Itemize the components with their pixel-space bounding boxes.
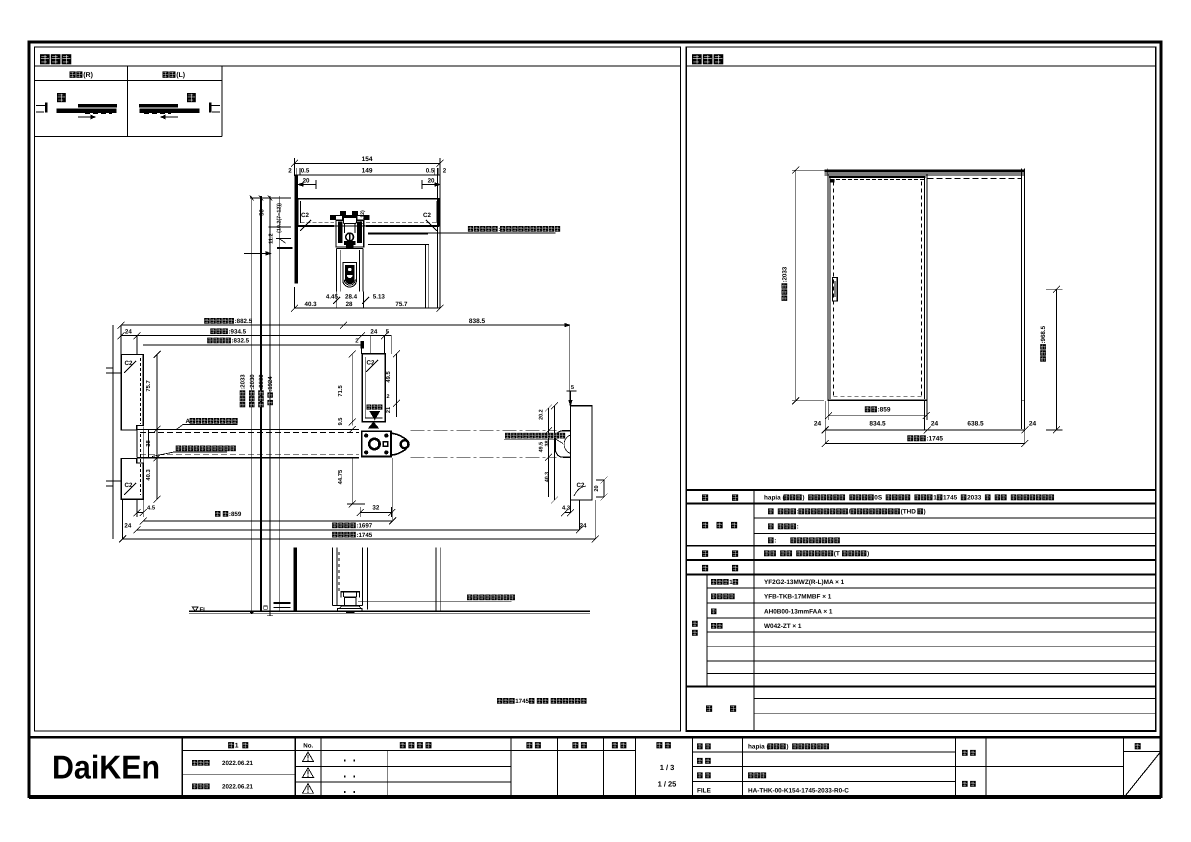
svg-text:40.3: 40.3: [545, 472, 551, 483]
svg-text:1 / 3: 1 / 3: [660, 763, 675, 772]
center post mohair text: [367, 405, 372, 410]
svg-text:1: 1: [235, 743, 239, 750]
center post (plan section) box: [362, 354, 385, 422]
elevation top rail: [824, 170, 1024, 172]
left-sliding diagram: direction mark: [187, 93, 196, 102]
svg-text:20: 20: [303, 178, 310, 185]
svg-text:28: 28: [346, 301, 353, 308]
right-sliding diagram: direction mark: [57, 93, 66, 102]
svg-text:C2: C2: [423, 212, 431, 219]
right-sliding diagram: arrow: [78, 116, 95, 118]
svg-text:24: 24: [1029, 421, 1037, 428]
svg-text:1: 1: [933, 495, 937, 502]
recessed pull outer shell: [343, 263, 357, 287]
FL level mark: [192, 607, 198, 612]
left panel header line: [35, 65, 681, 67]
title block top heavy line: [29, 736, 1161, 738]
floor detail: right jamb pair: [435, 548, 437, 611]
plan dim row1 line 882.5 / 838.5: [121, 324, 570, 326]
svg-text::859: :859: [229, 511, 242, 518]
svg-text:75.7: 75.7: [395, 301, 408, 308]
callout 吊戸用ガイドピン: [467, 595, 472, 601]
svg-text:49.5: 49.5: [385, 371, 392, 383]
head rail bottom flange right (bold): [366, 225, 439, 227]
svg-text:C2: C2: [125, 360, 133, 367]
plan dims extension verticals top: [120, 325, 122, 354]
svg-text::2030: :2030: [249, 374, 256, 390]
spec table outer heavy border: [686, 490, 1156, 731]
left jamb dashed inner lower: [140, 434, 142, 495]
svg-text::2033: :2033: [240, 374, 247, 390]
plan dim row2 line 内法幅934.5: [121, 335, 391, 337]
svg-text:HA-THK-00-K154-1745-2033-R0-C: HA-THK-00-K154-1745-2033-R0-C: [748, 788, 849, 795]
svg-text:32: 32: [372, 504, 379, 511]
bottom dim row 扉幅:859: [215, 511, 220, 517]
head detail left tie line at y198: [250, 197, 291, 199]
right jamb sliding-cap outline (rounded left): [556, 431, 571, 458]
svg-text:154: 154: [362, 156, 373, 163]
left-sliding diagram: arrow: [161, 116, 178, 118]
svg-text:28.4: 28.4: [345, 294, 358, 301]
page diagonal: [1124, 753, 1160, 798]
head section dim 20 right: [422, 184, 440, 186]
elevation rail underside line: [824, 174, 1024, 176]
head detail left dim 50: [259, 208, 266, 215]
svg-text:20: 20: [594, 485, 600, 491]
svg-text:hapia (: hapia (: [764, 495, 785, 502]
right panel header line: [686, 65, 1156, 67]
head detail bottom dim line: [295, 307, 441, 309]
svg-text:0.5: 0.5: [426, 168, 435, 175]
hanger roller: center white carriage: [343, 217, 356, 223]
svg-text:1: 1: [729, 579, 733, 586]
head detail bottom dim row 1: [331, 296, 333, 301]
scale column 縮尺: [656, 742, 662, 748]
spec 品番 vertical label: [692, 621, 698, 627]
svg-text:YF2G2-13MWZ(R-L)MA × 1: YF2G2-13MWZ(R-L)MA × 1: [764, 579, 845, 586]
svg-text:24: 24: [931, 421, 939, 428]
svg-text:11.2: 11.2: [269, 233, 275, 244]
svg-text:(R): (R): [83, 71, 93, 79]
bottom dims extension verticals: [122, 499, 124, 539]
svg-text::2000: :2000: [258, 374, 265, 390]
svg-text:(L): (L): [176, 71, 185, 79]
center post mohair brush mark (filled triangle): [370, 412, 380, 420]
svg-text:DaiKEn: DaiKEn: [52, 749, 160, 786]
head rail outer box: [298, 199, 439, 226]
svg-text:5.13: 5.13: [373, 294, 386, 301]
elevation dim extension verticals: [824, 401, 826, 444]
svg-text:AH0B00-13mmFAA × 1: AH0B00-13mmFAA × 1: [764, 609, 833, 616]
head detail left tie line arrow y253: [244, 252, 271, 254]
svg-text::2033: :2033: [782, 266, 789, 282]
center post anchor mark below box: [369, 422, 379, 428]
svg-text::: :: [774, 538, 776, 545]
title block vertical dividers: [181, 737, 183, 798]
svg-text:24: 24: [124, 523, 131, 530]
svg-text:1 / 25: 1 / 25: [658, 780, 677, 789]
height line 3: [269, 196, 271, 610]
head detail bottom extension verticals: [336, 292, 338, 309]
floor detail: guide pin base plate: [337, 609, 362, 612]
right jamb top dim 5 arrow: [570, 391, 572, 406]
svg-text:2: 2: [387, 394, 390, 400]
hanger roller: side wheels (filled): [338, 222, 343, 244]
head section dim line 2/0.5/149/0.5/2: [295, 174, 441, 176]
center post dim 49.5 / 21 / 2: [396, 354, 398, 417]
svg-text:0.5: 0.5: [301, 168, 310, 175]
svg-text::934.5: :934.5: [229, 328, 247, 335]
svg-text:): ): [867, 551, 869, 558]
left panel header text 断面図: [40, 54, 50, 64]
svg-text:No.: No.: [303, 743, 313, 750]
svg-text::1745: :1745: [926, 436, 943, 443]
svg-text:/: /: [849, 509, 851, 516]
svg-text:2033: 2033: [967, 495, 982, 502]
approval headers 承認/確認/作成: [526, 742, 532, 748]
floor detail: dashed center of door: [338, 552, 340, 592]
hanger roller: body frame: [336, 220, 364, 247]
right jamb dim lines 20.2/38/49.5/40.3: [548, 408, 550, 497]
svg-text:20.2: 20.2: [539, 409, 545, 420]
callout text 吊戸レール：アルミ形材シート貼り: [468, 226, 473, 232]
head detail left dim (10.2(7~12)): [276, 203, 282, 233]
svg-text:5: 5: [571, 385, 574, 391]
head detail left dim 11.2: [269, 233, 275, 244]
svg-text:71.5: 71.5: [338, 385, 344, 397]
svg-text:838.5: 838.5: [469, 318, 486, 325]
svg-text:FILE: FILE: [697, 788, 712, 795]
svg-text:): ): [802, 495, 804, 502]
latch keeper small square: [383, 442, 388, 447]
spec row label 仕上げ: [702, 522, 708, 528]
left panel (section view) box: [35, 47, 681, 731]
rail bottom bold segment right of roller: [368, 233, 428, 235]
door top vertical section edges: [336, 248, 338, 291]
svg-text:4.5: 4.5: [147, 506, 156, 512]
orientation table grid: [35, 79, 222, 81]
revision sub divider: [387, 751, 389, 799]
svg-text:24: 24: [125, 328, 132, 335]
head rail inner lines: [300, 201, 302, 223]
spec table heavy row lines: [686, 503, 1156, 505]
dim 44.75 below center post: [351, 458, 353, 504]
svg-text:638.5: 638.5: [967, 421, 984, 428]
right-sliding diagram: wall jamb left: [36, 105, 47, 107]
elevation right frame stile (double line): [1020, 169, 1022, 430]
floor line (double): [189, 610, 590, 612]
bottom dim row 枠外幅:1745: [332, 532, 337, 538]
svg-text:(T: (T: [834, 551, 840, 558]
spec row label 備考: [706, 705, 712, 711]
svg-text:21: 21: [386, 407, 392, 413]
floor detail: guide pin feet below floor: [346, 612, 355, 614]
recessed pull bottom arc: [344, 280, 355, 286]
svg-text:50: 50: [259, 208, 266, 215]
svg-text::882.5: :882.5: [235, 318, 253, 325]
center post dim 71.5 / 9.5: [351, 354, 353, 426]
svg-text:40.3: 40.3: [305, 301, 318, 308]
rotated label 吊元高:2000: [258, 374, 265, 408]
left-sliding diagram: wall jamb right: [209, 105, 220, 107]
elevation door handle: [833, 278, 838, 302]
callout 吊戸用引込みキャップ right: [505, 433, 510, 439]
floor detail: jamb bar (filled): [294, 548, 298, 611]
spec 品番 sub labels: [711, 579, 716, 585]
left-sliding diagram: door panel bars: [140, 109, 200, 114]
left jamb frame (plan) upper part: [121, 355, 143, 430]
svg-text:24: 24: [370, 328, 377, 335]
right-sliding diagram: door panel bars: [57, 109, 117, 114]
svg-text:): ): [924, 509, 926, 516]
svg-text:): ): [786, 744, 788, 751]
recessed pull dark cup (filled): [345, 265, 354, 283]
orientation header 左引(L): [163, 71, 169, 77]
svg-text:1745: 1745: [943, 495, 958, 502]
left jamb dashed inner upper: [140, 358, 142, 424]
svg-text:0S: 0S: [874, 495, 883, 502]
elevation door top bold edge: [829, 176, 926, 178]
floor detail: door bottom edges: [332, 548, 334, 606]
head rail bottom flange left (bold): [298, 225, 334, 227]
door travel phantom lines (dash-dot): [411, 430, 557, 432]
svg-text:C2: C2: [125, 482, 133, 489]
elevation hanger mark at door top-left: [831, 179, 835, 183]
latch keeper main ring: [369, 439, 379, 449]
spec table label column divider: [753, 490, 755, 731]
left wall line: [112, 325, 114, 539]
svg-text::1924: :1924: [267, 376, 274, 392]
head detail door-top tie bold line: [277, 247, 293, 249]
svg-text:2: 2: [443, 168, 447, 175]
door leaf band (plan): top edge: [137, 428, 359, 430]
right jamb inner cap arc: [564, 435, 570, 454]
right panel (front view) box: [686, 47, 1156, 731]
svg-text:hapia (: hapia (: [748, 744, 769, 751]
bottom dim row 内法幅:1697: [332, 523, 337, 529]
latch tongue ring: [401, 440, 409, 448]
svg-text::: :: [797, 524, 799, 531]
hanger roller: top bracket plate (filled): [330, 215, 370, 220]
svg-text::968.5: :968.5: [1040, 325, 1047, 343]
floor detail: guide pin housing: [341, 592, 360, 598]
right jamb dim 20 bracket: [603, 480, 605, 497]
right jamb frame (plan): main body with cap protrusion: [571, 406, 592, 500]
svg-text:2022.06.21: 2022.06.21: [222, 760, 254, 767]
revision history header 改訂履歴: [400, 742, 406, 748]
rotated label 内法高:2030: [249, 374, 256, 408]
head detail left tie line at y227: [269, 226, 291, 228]
callout 吊戸用引込みキャップ left: [176, 446, 181, 452]
hanger roller: lower plate (filled): [344, 241, 356, 245]
elevation right dim 引手高:968.5: [1056, 289, 1058, 430]
svg-text:1745: 1745: [515, 698, 529, 705]
door leaf band: bottom edge: [137, 457, 359, 459]
svg-text:C2: C2: [301, 212, 309, 219]
svg-text:W042-ZT × 1: W042-ZT × 1: [764, 623, 802, 630]
svg-text:38: 38: [545, 441, 551, 447]
height line 枠外高2033: [251, 196, 253, 610]
threshold step bars near jamb: [273, 602, 290, 604]
svg-text:24: 24: [814, 421, 822, 428]
rotated label 枠外高:2033: [240, 374, 247, 408]
elevation door inner dashed rect: [833, 182, 835, 397]
elevation right opening dashed line: [927, 177, 1021, 179]
svg-text:(12.12): (12.12): [360, 210, 366, 227]
svg-text:20: 20: [428, 178, 435, 185]
latch tongue (kama) lobe: [391, 433, 408, 455]
svg-text:149: 149: [362, 168, 373, 175]
spec row content 把手: [764, 550, 770, 556]
svg-text:YFB-TKB-17MMBF × 1: YFB-TKB-17MMBF × 1: [764, 594, 832, 601]
svg-text::859: :859: [878, 407, 891, 414]
door thickness rotated label: [360, 210, 366, 227]
svg-text::832.5: :832.5: [232, 338, 250, 345]
svg-text:FL: FL: [200, 606, 208, 613]
svg-text:(THD: (THD: [901, 509, 917, 516]
spec row label 把手: [702, 550, 708, 556]
svg-text:49.5: 49.5: [539, 442, 545, 453]
right panel header text 正面図: [692, 54, 702, 64]
elevation bottom dim 枠外幅:1745: [907, 435, 913, 441]
height line 2 (bold): [260, 196, 262, 610]
head section dim 20 left: [298, 184, 316, 186]
revision triangles: [303, 752, 314, 762]
latch keeper plate (plan): [362, 431, 391, 456]
svg-text:2022.06.21: 2022.06.21: [222, 784, 254, 791]
spec rows content 仕上げ: [768, 508, 774, 514]
height line 3 below-floor tick: [269, 611, 271, 616]
height line 扉高1924: [278, 196, 280, 610]
rotated label 扉高:1924: [267, 376, 274, 405]
elevation door leaf outline: [827, 174, 829, 401]
rev-date rows: [192, 760, 197, 766]
left jamb frame (plan) lower part: [121, 459, 143, 500]
leaf band dim ext line 75.7/38/40.3: [156, 355, 158, 500]
right extension verticals of head detail: [437, 168, 439, 308]
floor detail: door bottom line: [333, 605, 363, 607]
title block bottom heavy line: [29, 797, 1161, 799]
svg-text::1697: :1697: [356, 523, 372, 530]
spec row label 専用: [702, 565, 708, 571]
rail right extension / leader to callout: [368, 232, 555, 234]
elevation bottom dim 扉幅:859: [865, 406, 871, 412]
left jamb wall hatch ticks: [106, 372, 121, 374]
revision row dots: [344, 760, 346, 762]
note ※枠幅1745用 右引 の場合を示す: [497, 698, 502, 704]
svg-text:44.75: 44.75: [338, 469, 344, 484]
wall stud bar (filled): [294, 176, 298, 284]
svg-text:9.5: 9.5: [338, 418, 344, 426]
head section dim 154 extension lines: [294, 158, 296, 176]
svg-text:834.5: 834.5: [869, 421, 886, 428]
floor junction dot at height line 1: [250, 611, 253, 614]
svg-text:2: 2: [288, 168, 292, 175]
spec table 品番 sub column divider: [706, 575, 708, 687]
spec row label 要式: [702, 494, 708, 500]
page cell 頁: [1135, 743, 1141, 749]
revision rows lines: [295, 765, 511, 767]
head detail left tie line at y238.5: [276, 238, 291, 240]
sakusei labels 件名/組員: [956, 766, 1124, 768]
spec table thin row lines: [754, 517, 1156, 519]
door top cap line: [337, 247, 364, 249]
orientation header 右引(R): [70, 71, 76, 77]
svg-text:C2: C2: [367, 360, 375, 367]
svg-text:40.3: 40.3: [145, 469, 152, 481]
svg-text:75.7: 75.7: [146, 380, 152, 391]
door leaf band: inner dashed lines: [140, 431, 359, 433]
svg-text:38: 38: [145, 439, 152, 446]
door leaf band: left end cap in jamb slot: [136, 429, 138, 457]
rev-date column: header 第1版: [228, 742, 234, 748]
name rows labels: [693, 751, 956, 753]
plan dim row3 line 有効開口832.5: [143, 344, 364, 346]
svg-text::1745: :1745: [356, 532, 372, 539]
head section dim line 154: [295, 162, 441, 164]
hanger roller: bolt circle: [346, 233, 354, 241]
latch keeper screws (filled): [364, 434, 368, 438]
elevation left height dim 枠外高:2033: [795, 170, 797, 401]
